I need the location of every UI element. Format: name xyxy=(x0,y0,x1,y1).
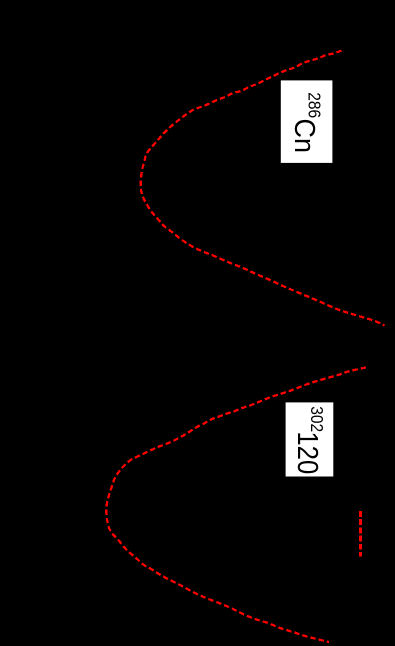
svg-text:302: 302 xyxy=(307,406,327,432)
svg-text:120: 120 xyxy=(292,431,325,474)
svg-text:Cn: Cn xyxy=(289,119,321,153)
svg-text:286: 286 xyxy=(304,92,324,118)
